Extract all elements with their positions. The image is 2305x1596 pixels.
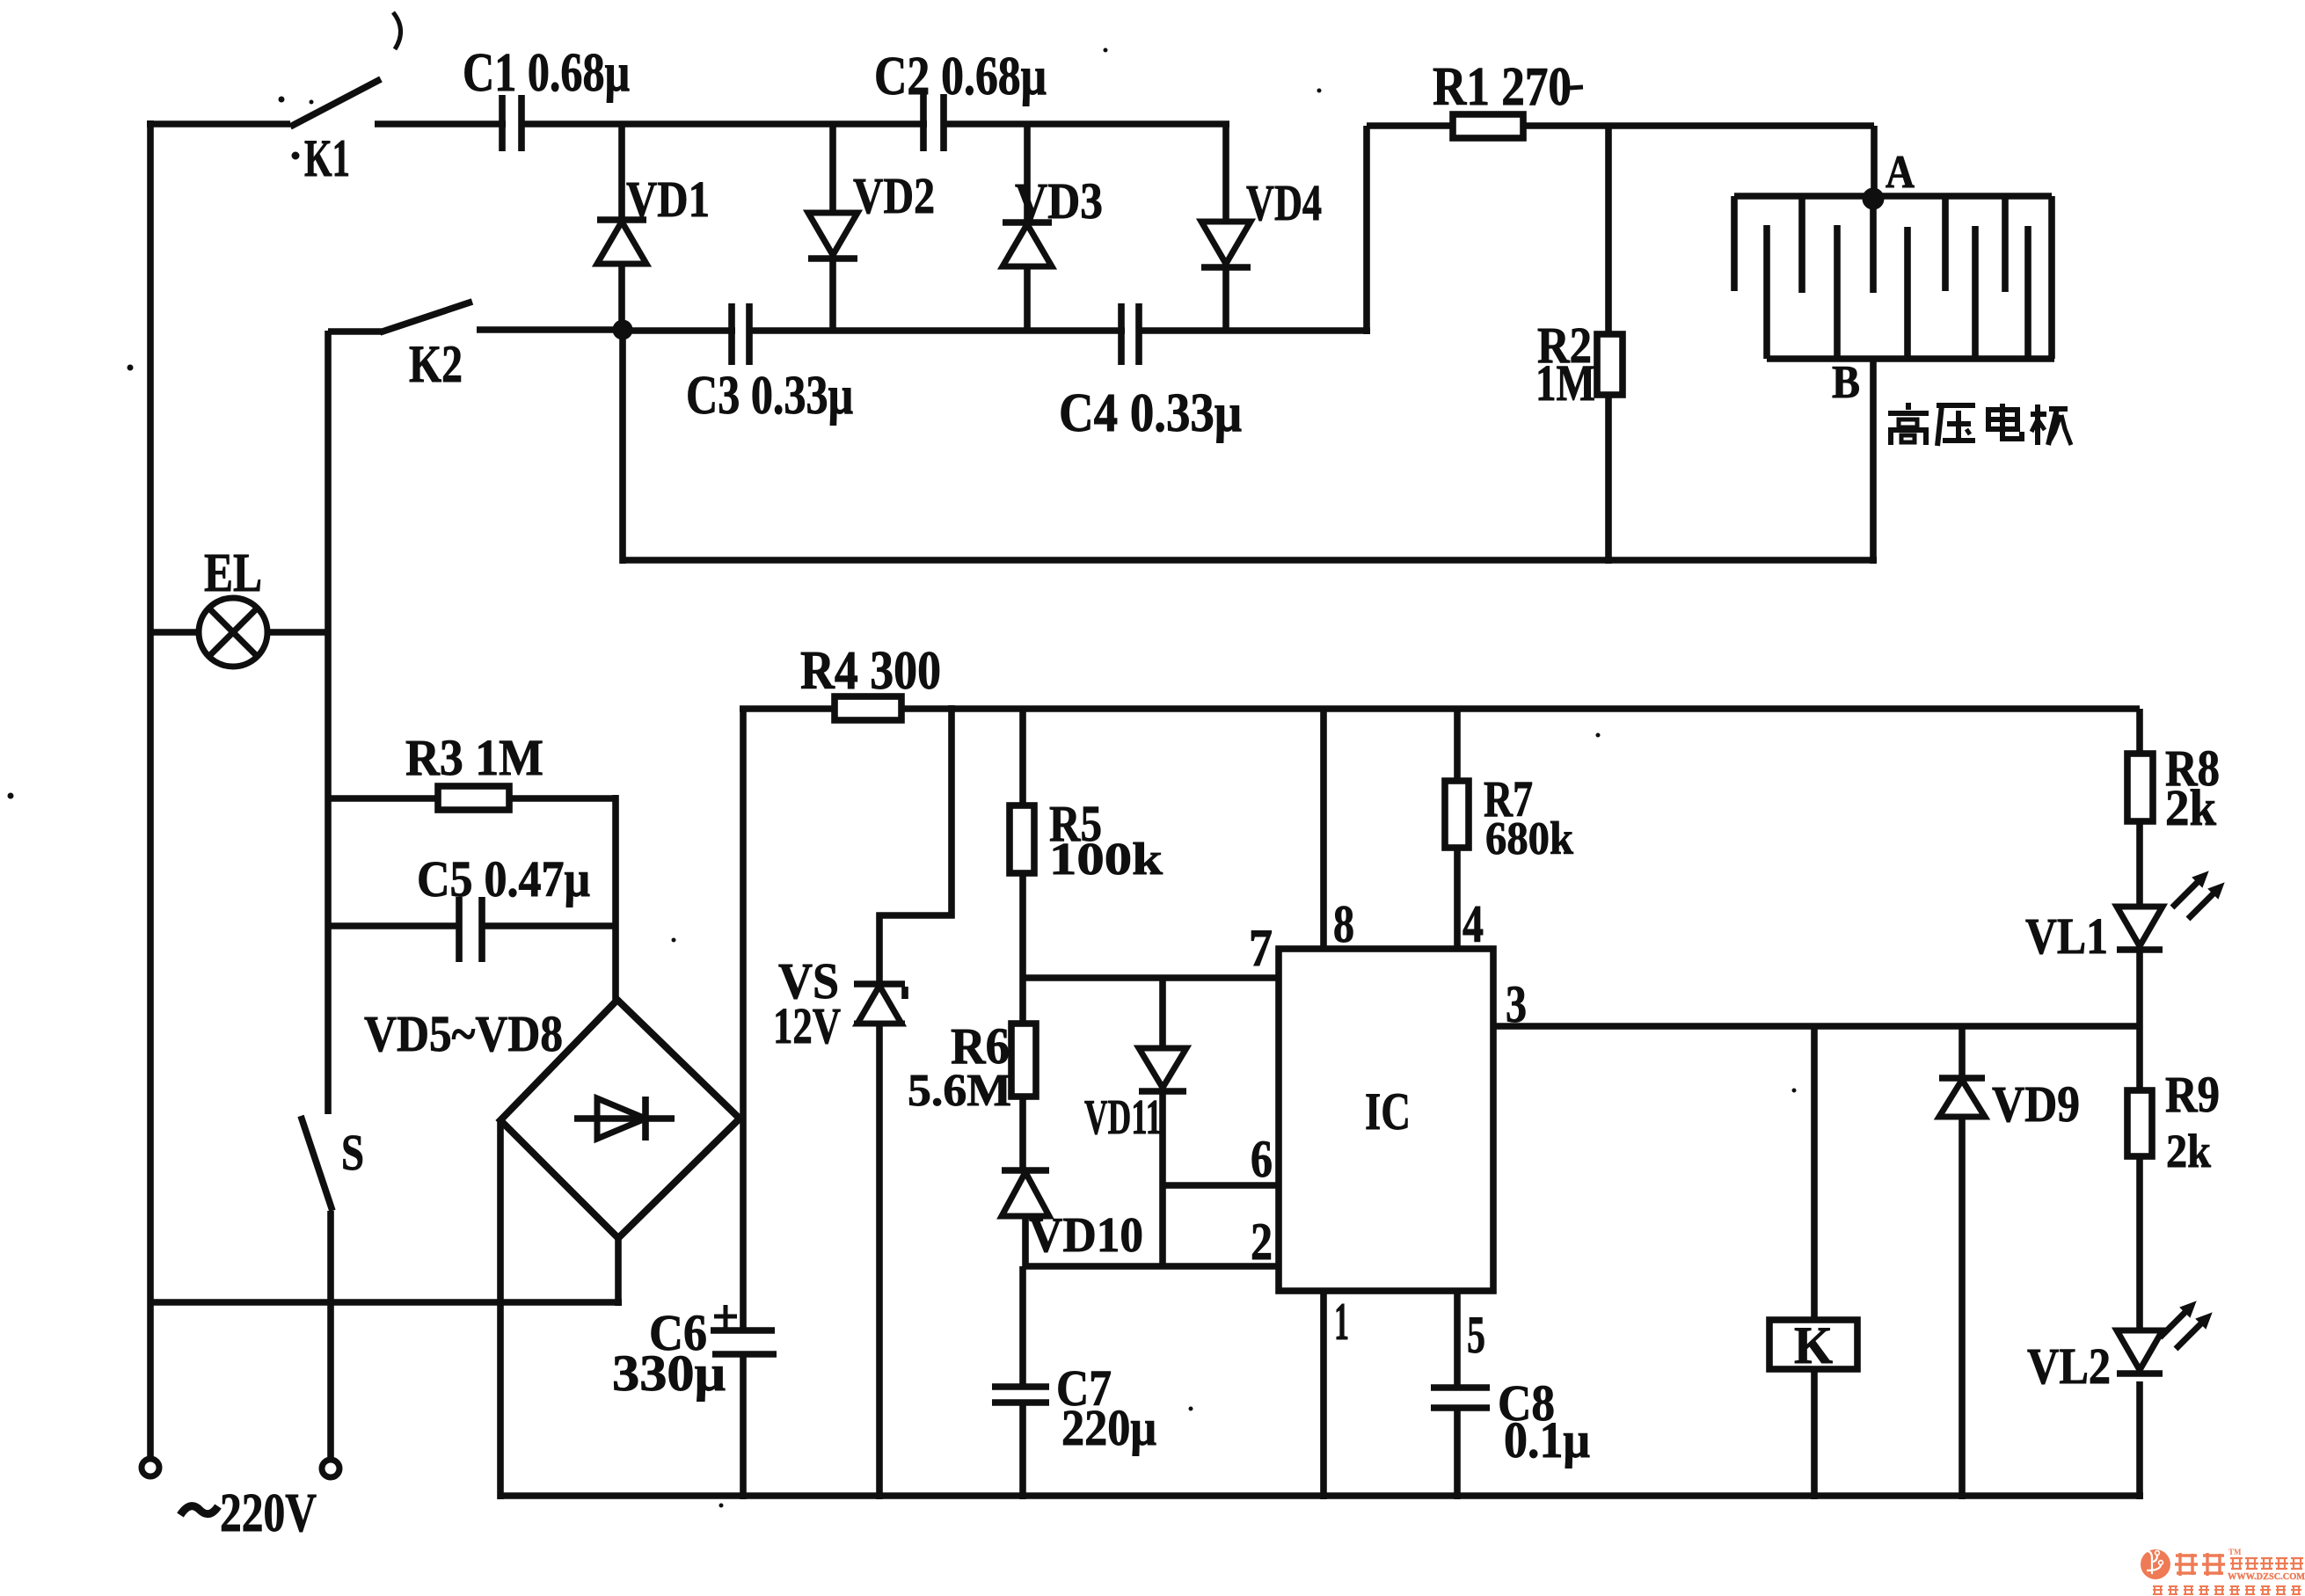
wire diode VD9 to ground rail — [1959, 1117, 1966, 1499]
wire IC pin3 — [1493, 1023, 2140, 1030]
svg-text:R9: R9 — [2165, 1066, 2220, 1123]
capacitor C6 plus sign — [714, 1315, 737, 1319]
electrode bottom tooth 4 — [1972, 226, 1979, 359]
wire capacitor C2 to diode VD4 top — [944, 120, 1229, 128]
wire IC pin2 — [1023, 1263, 1279, 1270]
wire switch K1 to capacitor C1 — [375, 120, 506, 128]
svg-text:220V: 220V — [220, 1483, 317, 1543]
wire V+ rail riser — [740, 709, 747, 1330]
diode VD11 — [1139, 1048, 1186, 1088]
wire resistor R2 top — [1605, 126, 1612, 334]
wire resistor R1 to electrode drop — [1523, 122, 1874, 129]
resistor R6 — [1011, 1024, 1036, 1097]
wire top rail from left rail to switch K1 — [147, 120, 290, 128]
bridge rectifier VD5~VD8 diamond — [500, 1000, 740, 1238]
svg-text:K2: K2 — [409, 335, 463, 393]
scan speck top middle — [1104, 48, 1107, 52]
svg-text:VD4: VD4 — [1246, 174, 1322, 231]
diode VD10 — [1002, 1167, 1049, 1174]
svg-text:3: 3 — [1506, 975, 1527, 1033]
diode VD1 — [597, 216, 646, 223]
capacitor C4 — [1118, 303, 1125, 365]
electrode bottom tooth 2 — [1834, 225, 1841, 359]
wire IC pin8 — [1320, 709, 1327, 949]
zener diode VS — [854, 980, 905, 987]
wire drop to node A — [1871, 126, 1878, 199]
capacitor C6 — [711, 1327, 775, 1334]
LED VL2 — [2117, 1330, 2163, 1370]
electrode bottom tooth 3 — [1904, 227, 1911, 359]
wire node to return line — [619, 330, 626, 564]
node A dot — [1863, 188, 1884, 209]
wire relay K top — [1811, 1026, 1818, 1320]
electrode top tooth 4 — [1942, 196, 1949, 291]
svg-text:R4 300: R4 300 — [800, 641, 941, 701]
capacitor C5 — [456, 897, 463, 962]
svg-text:TM: TM — [2228, 1548, 2242, 1556]
svg-text:6: 6 — [1251, 1130, 1273, 1188]
svg-text:C4 0.33μ: C4 0.33μ — [1059, 383, 1242, 443]
electrode bottom tooth 5 — [2024, 226, 2031, 359]
relay K box — [1769, 1320, 1857, 1369]
wire diode VD9 top — [1959, 1026, 1966, 1080]
terminal circle right — [322, 1460, 339, 1477]
scan artifact stray mark — [393, 12, 401, 49]
wire K2 vertical rail — [325, 331, 332, 1114]
svg-text:1: 1 — [1334, 1293, 1349, 1351]
scan speck near K1 label — [292, 152, 299, 159]
wire resistor R3 branch — [328, 795, 616, 802]
diode VD2 top wire — [829, 124, 836, 215]
svg-text:S: S — [341, 1124, 364, 1181]
resistor R1 — [1453, 114, 1523, 138]
LED VL1 light arrows — [2172, 879, 2200, 907]
capacitor C3 — [728, 303, 735, 365]
svg-text:C2 0.68μ: C2 0.68μ — [874, 47, 1047, 106]
IC box — [1279, 949, 1493, 1291]
svg-text:VL1: VL1 — [2025, 907, 2108, 965]
bridge rectifier inner diode — [574, 1115, 675, 1122]
capacitor C2 — [920, 94, 927, 151]
ground rail — [500, 1492, 2143, 1499]
wire diode VD2 to second rail — [829, 259, 836, 331]
svg-text:4: 4 — [1463, 895, 1484, 953]
svg-text:C1 0.68μ: C1 0.68μ — [463, 43, 630, 103]
wire resistor R5 to pin7 junction — [1019, 873, 1026, 1024]
svg-text:R1 270: R1 270 — [1433, 57, 1572, 117]
svg-text:VD3: VD3 — [1015, 172, 1103, 230]
scan speck dash after R1 270 — [1570, 87, 1583, 88]
wire resistor R2 bottom to return wire — [1605, 395, 1612, 564]
wire capacitor C7 to ground rail — [1019, 1403, 1026, 1499]
terminal circle left — [142, 1459, 159, 1476]
wire diode VD10 to pin2 wire — [1022, 1216, 1029, 1266]
node junction below VD1 — [613, 320, 632, 339]
svg-text:100k: 100k — [1049, 834, 1163, 885]
diode VD2 — [808, 213, 857, 255]
svg-text:680k: 680k — [1485, 813, 1573, 864]
svg-text:A: A — [1886, 147, 1915, 198]
wire resistor R4 left — [740, 705, 835, 712]
svg-text:0.1μ: 0.1μ — [1504, 1411, 1590, 1468]
wire capacitor C6 to ground rail — [740, 1354, 747, 1499]
scan speck above K1 lever — [279, 97, 284, 102]
wire capacitor C4 to R1 riser — [1139, 327, 1370, 334]
wire LED VL2 to ground rail — [2136, 1381, 2143, 1499]
wire capacitor C8 to ground rail — [1454, 1408, 1461, 1499]
svg-text:K1: K1 — [304, 129, 350, 187]
LED VL1 — [2117, 907, 2163, 946]
wire resistor R5 top — [1019, 709, 1026, 805]
label high-voltage electrode (Chinese) — [1906, 403, 1911, 410]
resistor R9 — [2127, 1090, 2152, 1156]
wire capacitor C3 to capacitor C4 — [749, 327, 1125, 334]
wire riser to resistor R1 — [1363, 126, 1370, 334]
wire bridge bottom corner drop — [615, 1238, 622, 1306]
svg-text:VD10: VD10 — [1029, 1208, 1143, 1263]
electrode top tooth 1 — [1731, 196, 1738, 291]
svg-text:220μ: 220μ — [1061, 1399, 1156, 1456]
wire diode VD1 to node — [618, 264, 625, 334]
capacitor C8 — [1431, 1384, 1490, 1391]
electrode top bar — [1734, 193, 2052, 200]
diode VD9 — [1939, 1075, 1985, 1082]
capacitor C7 — [992, 1383, 1049, 1390]
resistor R2 — [1597, 334, 1623, 395]
wire switch S to terminal — [327, 1211, 334, 1459]
wire node B drop — [1870, 359, 1877, 564]
resistor R5 — [1010, 805, 1034, 873]
wire return line to node — [620, 557, 1877, 564]
wire left rail to lamp EL — [150, 629, 200, 636]
electrode top tooth 5 — [2002, 196, 2009, 292]
wire diode VD3 to second rail — [1024, 266, 1031, 331]
wire bridge bottom to left rail — [150, 1299, 622, 1306]
wire resistor R7 top — [1454, 709, 1461, 781]
svg-text:1M: 1M — [1535, 354, 1595, 412]
wire resistor R9 to LED VL2 — [2136, 1156, 2143, 1330]
wire diode VD11 to pin2 wire — [1159, 1091, 1166, 1266]
electrode top tooth 2 — [1798, 196, 1805, 293]
wire V+ rail corner to R8 — [2136, 709, 2143, 754]
wire capacitor C1 to capacitor C2 — [522, 120, 927, 128]
switch S lever — [301, 1116, 332, 1211]
svg-text:2: 2 — [1251, 1213, 1273, 1271]
lamp EL — [199, 598, 267, 667]
svg-text:IC: IC — [1365, 1082, 1411, 1141]
LED VL2 light arrows — [2160, 1309, 2188, 1337]
wire IC pin7 — [1023, 974, 1279, 981]
wire relay K to ground rail — [1811, 1369, 1818, 1499]
wire left rail (~220V live side) — [147, 120, 154, 1459]
wire V+ distribution rail — [901, 705, 2140, 712]
diode VD4 — [1201, 222, 1251, 264]
wire IC pin5 — [1454, 1291, 1461, 1388]
wire switch K2 to node — [477, 326, 625, 333]
svg-text:5.6M: 5.6M — [908, 1066, 1011, 1116]
diode VD1 anode wire — [618, 124, 625, 222]
resistor R7 — [1445, 781, 1469, 848]
wire bridge AC input riser — [612, 795, 619, 1003]
wire resistor R7 to IC pin4 — [1454, 848, 1461, 949]
wire diode VD4 to second rail — [1222, 267, 1229, 331]
svg-text:K: K — [1794, 1316, 1833, 1374]
resistor R8 — [2127, 754, 2153, 821]
svg-text:C3 0.33μ: C3 0.33μ — [686, 366, 853, 426]
electrode top tooth 3 — [1870, 199, 1877, 293]
switch K1 lever — [290, 79, 381, 127]
svg-text:VD1: VD1 — [626, 171, 710, 228]
supply label ~220V — [180, 1506, 218, 1515]
svg-text:R3 1M: R3 1M — [405, 729, 543, 786]
wire resistor R8 to LED VL1 — [2136, 821, 2143, 907]
switch K2 lever — [328, 328, 382, 335]
electrode bottom tooth 1 — [1763, 225, 1770, 359]
svg-text:VD5~VD8: VD5~VD8 — [364, 1005, 563, 1062]
svg-text:WWW.DZSC.COM: WWW.DZSC.COM — [2228, 1572, 2305, 1582]
wire lamp EL to K2 rail — [267, 629, 330, 636]
diode VD4 top wire — [1222, 124, 1229, 223]
svg-text:12V: 12V — [773, 997, 841, 1054]
diode VD3 top wire — [1024, 124, 1031, 224]
scan speck misc — [672, 938, 675, 942]
svg-text:330μ: 330μ — [612, 1345, 726, 1402]
wire pin2 junction to capacitor C7 — [1019, 1266, 1026, 1387]
scan speck left margin — [128, 365, 133, 370]
diode VD3 — [1003, 219, 1052, 226]
svg-text:C5 0.47μ: C5 0.47μ — [417, 850, 590, 907]
wire LED VL1 through pin3 junction to R9 — [2136, 950, 2143, 1090]
electrode bottom bar — [1767, 355, 2054, 362]
wire capacitor C5 branch left — [328, 922, 459, 929]
electrode right edge — [2048, 196, 2055, 359]
wire resistor R6 to diode VD10 — [1019, 1097, 1026, 1172]
resistor R3 — [438, 786, 509, 810]
svg-text:2k: 2k — [2165, 779, 2217, 836]
wire zener VS jog — [879, 705, 952, 986]
wire IC pin6 — [1163, 1182, 1279, 1189]
svg-text:7: 7 — [1249, 919, 1273, 977]
svg-text:B: B — [1832, 357, 1860, 408]
svg-text:VD2: VD2 — [853, 167, 935, 224]
watermark dzsc logo — [2141, 1549, 2170, 1579]
resistor R4 — [835, 696, 901, 720]
wire IC pin1 — [1320, 1291, 1327, 1499]
svg-text:5: 5 — [1467, 1306, 1485, 1364]
wire second rail node to capacitor C3 — [623, 327, 735, 334]
svg-text:EL: EL — [204, 543, 262, 603]
wire capacitor C5 branch right — [482, 922, 616, 929]
wire zener VS to ground rail — [876, 1024, 883, 1499]
capacitor C1 — [499, 95, 506, 151]
svg-text:VD11: VD11 — [1084, 1090, 1162, 1145]
wire bridge left corner to ground rail — [497, 1120, 504, 1499]
diode VD11 top wire — [1159, 978, 1166, 1048]
svg-text:VD9: VD9 — [1992, 1075, 2080, 1133]
svg-text:8: 8 — [1333, 895, 1354, 953]
svg-text:2k: 2k — [2166, 1125, 2211, 1177]
svg-text:VL2: VL2 — [2027, 1337, 2111, 1395]
